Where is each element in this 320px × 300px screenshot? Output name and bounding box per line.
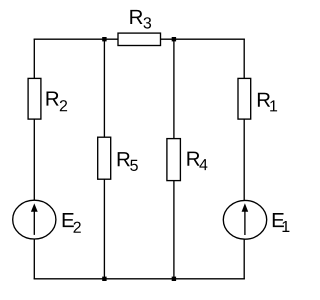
label E1 sub '1': [283, 221, 290, 232]
node junction bottom-right: [172, 277, 176, 281]
label R2 sub '2': [60, 100, 67, 111]
wire bottom horizontal: [34, 278, 245, 280]
label R4 sub '4': [199, 159, 207, 170]
label E2 'E': [63, 213, 74, 227]
label R1 sub '1': [270, 100, 277, 111]
source E2 arrow: [31, 203, 38, 235]
label R5 'R': [118, 152, 130, 166]
node junction top-right: [172, 37, 176, 41]
label R3 sub '3': [144, 17, 152, 28]
node junction bottom-left: [102, 277, 106, 281]
label R1 'R': [258, 93, 270, 107]
wire right branch vertical: [243, 39, 245, 279]
resistor R4: [167, 139, 181, 181]
node junction top-left: [102, 37, 106, 41]
wire left branch vertical: [33, 39, 35, 279]
resistor R5: [98, 137, 111, 179]
label R3 'R': [130, 10, 142, 24]
resistor R2: [28, 78, 41, 119]
label E1 'E': [273, 213, 284, 227]
wire middle-right branch vertical: [173, 39, 175, 279]
source E1 arrow: [242, 203, 249, 235]
wire middle-left branch vertical: [103, 39, 105, 279]
resistor R1: [238, 78, 251, 119]
label R5 sub '5': [130, 160, 138, 171]
wire top horizontal: [34, 38, 245, 40]
source E1: [223, 200, 266, 239]
resistor R3: [118, 33, 161, 45]
label R2 'R': [47, 92, 59, 106]
source E2: [13, 200, 56, 239]
label R4 'R': [187, 152, 199, 166]
label E2 sub '2': [74, 222, 81, 233]
